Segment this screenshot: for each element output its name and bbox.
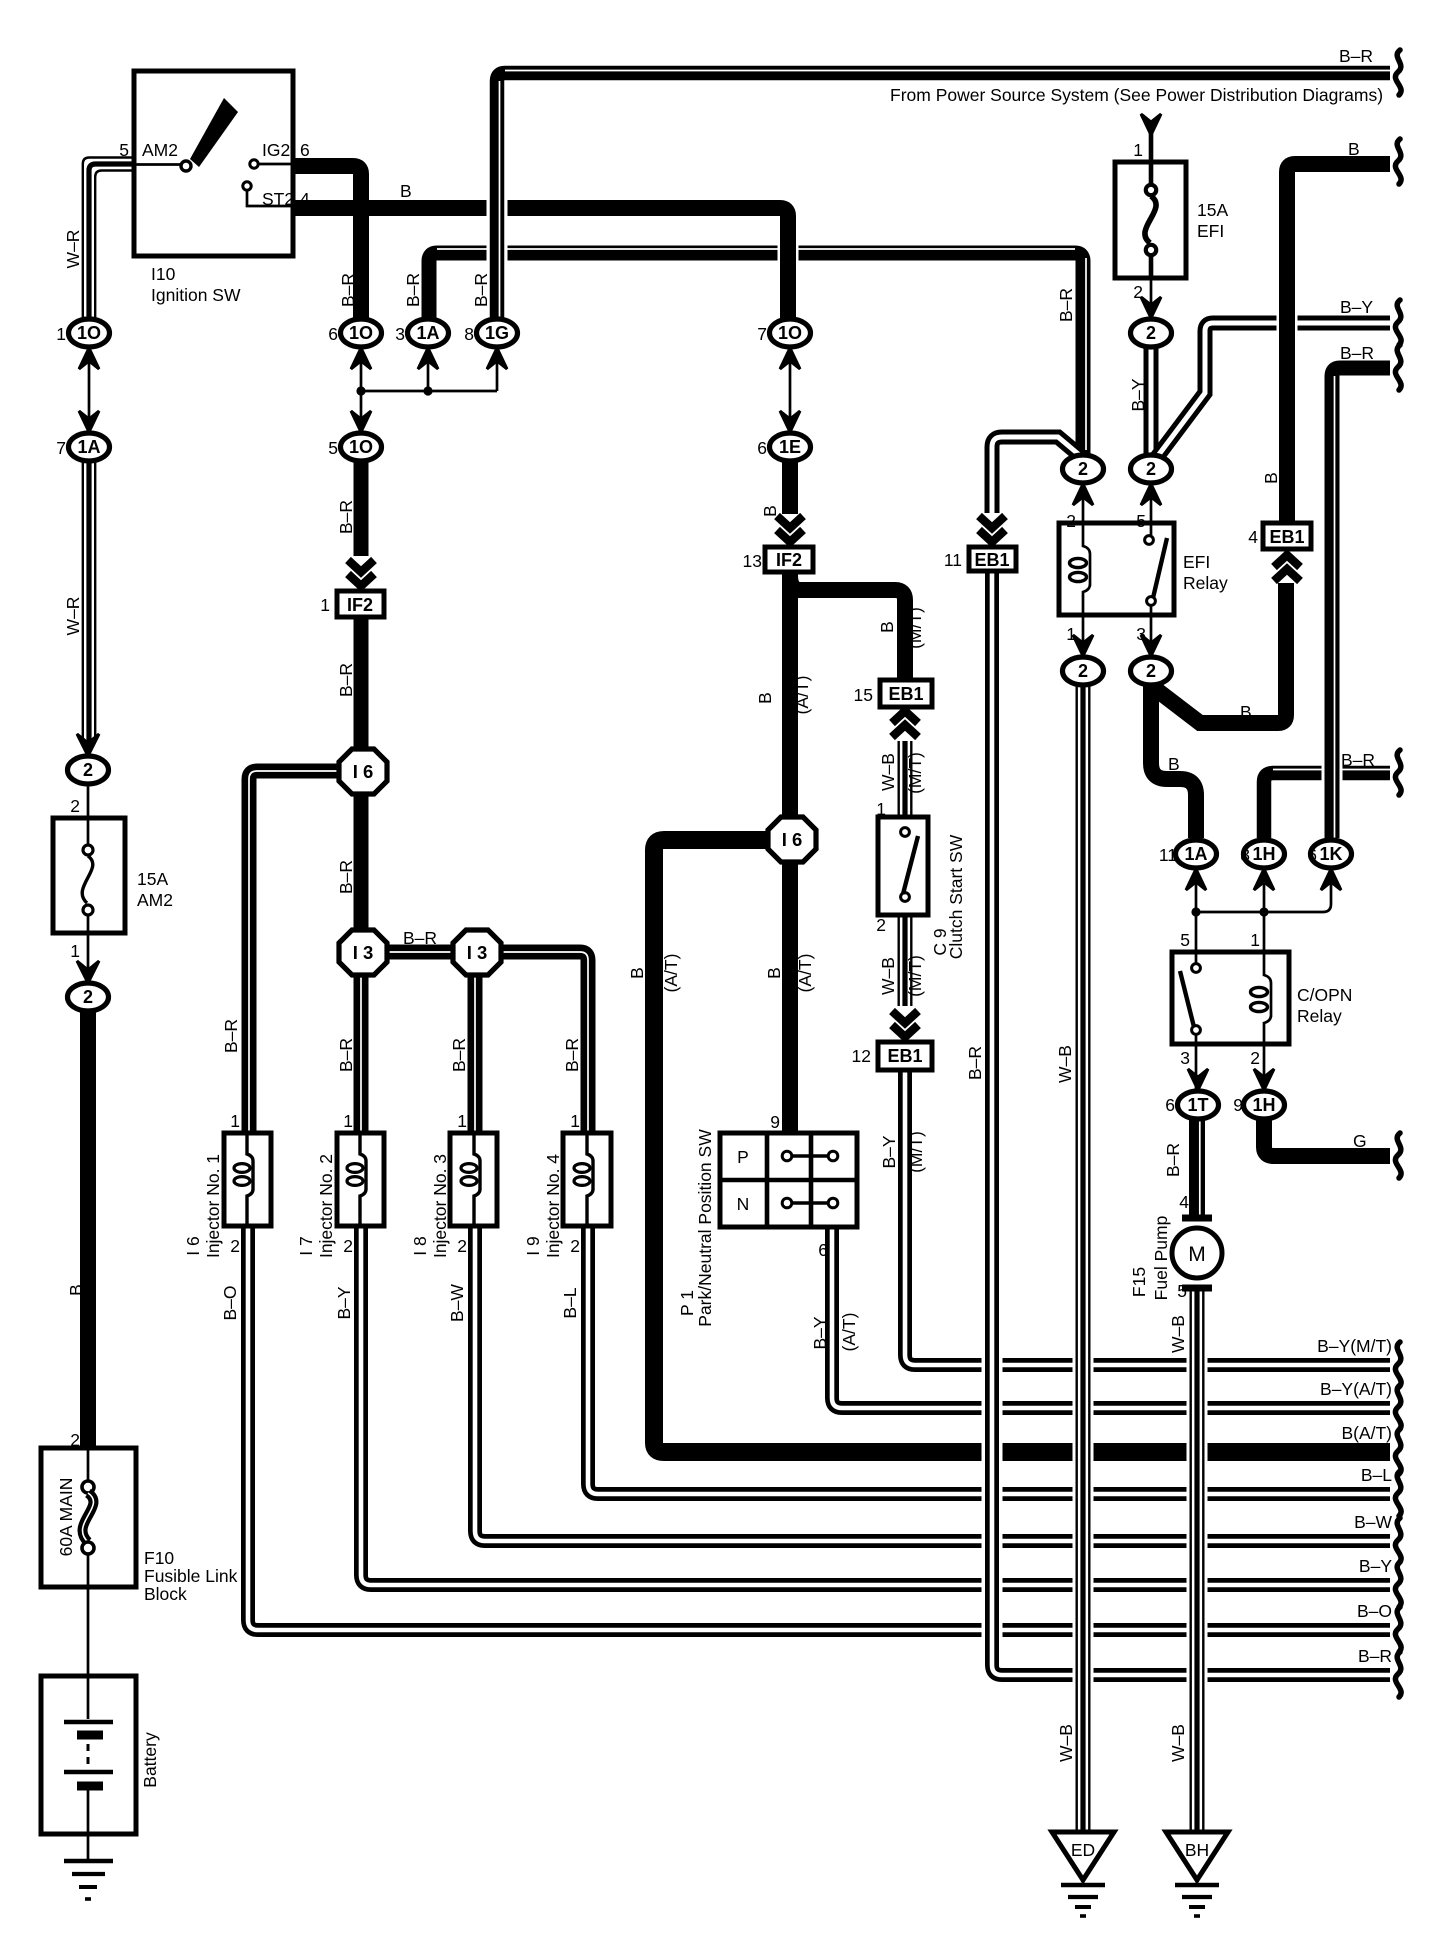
wire B-R double from EB1 11 down and right to edge bus — [992, 570, 1390, 1675]
svg-text:2: 2 — [1133, 282, 1143, 302]
connector oval 2 above AM2 fuse — [68, 756, 109, 784]
svg-text:1O: 1O — [77, 323, 101, 343]
wire B-L double from injector No.4 to right edge bus — [588, 1226, 1390, 1494]
svg-text:Injector No. 4: Injector No. 4 — [543, 1154, 563, 1258]
svg-text:Clutch Start SW: Clutch Start SW — [946, 834, 966, 959]
splice octagon I6 right — [768, 817, 816, 862]
connector oval 6-1O — [341, 319, 382, 347]
svg-text:B–R: B–R — [471, 273, 491, 307]
svg-text:B: B — [1261, 472, 1281, 484]
C/OPN relay switch contacts — [1195, 952, 1198, 1044]
svg-text:Battery: Battery — [140, 1732, 160, 1788]
svg-text:BH: BH — [1185, 1840, 1209, 1860]
svg-text:1H: 1H — [1252, 1095, 1275, 1115]
svg-text:B–W: B–W — [1354, 1512, 1392, 1532]
svg-text:B: B — [760, 505, 780, 517]
wire thin link C/OPN relay pin 2 to 9-1H — [1263, 1044, 1266, 1090]
svg-text:Injector No. 3: Injector No. 3 — [430, 1154, 450, 1258]
svg-text:9: 9 — [770, 1112, 780, 1132]
crescent B-Y — [1395, 1562, 1401, 1607]
svg-text:4: 4 — [1248, 527, 1258, 547]
svg-text:1H: 1H — [1252, 844, 1275, 864]
svg-text:I 6: I 6 — [353, 761, 374, 782]
EFI relay box — [1059, 523, 1174, 615]
wire thin link from power source arrow to EFI fuse — [1149, 128, 1154, 163]
svg-text:2: 2 — [457, 1236, 467, 1256]
svg-text:F15: F15 — [1129, 1267, 1149, 1297]
wire B-Y double diagonal from oval 2 up to right edge — [1154, 323, 1390, 461]
svg-text:1E: 1E — [779, 437, 801, 457]
svg-text:1: 1 — [343, 1111, 353, 1131]
svg-text:B: B — [764, 967, 784, 979]
wire thin link EFI relay pin 1 to oval 2 — [1082, 615, 1085, 657]
wire B-Y(M/T) double from EB1 12 to right edge bus — [905, 1070, 1390, 1365]
EFI fuse box 15A — [1115, 162, 1186, 278]
arrow into oval 2 below EFI fuse — [1141, 297, 1161, 318]
svg-text:2: 2 — [1078, 459, 1088, 479]
svg-text:3: 3 — [395, 324, 405, 344]
wire B-R white core of top bus — [505, 70, 1390, 72]
svg-text:6: 6 — [300, 140, 310, 160]
BH ground bars — [1196, 1880, 1199, 1884]
wire B-R white core line of y=253 bus — [437, 248, 1075, 250]
fuel pump F15 cap top — [1182, 1215, 1212, 1222]
svg-text:B–Y: B–Y — [334, 1286, 354, 1319]
svg-text:B–R: B–R — [403, 273, 423, 307]
ignition switch AM2 pivot contact — [181, 161, 191, 171]
svg-text:I 6: I 6 — [183, 1236, 203, 1255]
svg-text:1: 1 — [320, 595, 330, 615]
svg-text:2: 2 — [70, 1430, 80, 1450]
wire thin link 6-1O to junction bus — [360, 347, 363, 433]
svg-text:B–Y: B–Y — [1359, 1556, 1392, 1576]
svg-text:W–B: W–B — [1055, 1045, 1075, 1083]
svg-text:2: 2 — [1146, 459, 1156, 479]
svg-text:3: 3 — [1180, 1048, 1190, 1068]
wire W-R triple from 7-1A down to oval 2 — [82, 461, 84, 742]
crescent B right — [1395, 139, 1401, 184]
ignition switch lever — [190, 98, 238, 167]
crescent B-Y right — [1395, 300, 1401, 345]
svg-text:8: 8 — [1240, 845, 1250, 865]
wire thin junction bus under connector row — [361, 390, 497, 393]
svg-text:IF2: IF2 — [347, 595, 373, 615]
svg-text:B: B — [755, 692, 775, 704]
fuel pump motor circle — [1172, 1228, 1222, 1278]
wire B-W double from injector No.3 to right edge bus — [475, 1226, 1390, 1541]
wire B-Y(A/T) double from park/neutral SW pin 6 to right edge bus — [832, 1227, 1390, 1408]
connector oval 2 below AM2 fuse — [68, 983, 109, 1011]
clutch start SW box C9 — [878, 817, 928, 915]
connector oval 8-1G — [477, 319, 518, 347]
wire thin link battery to ground — [87, 1834, 90, 1860]
ignition switch IG2 internal wire — [258, 163, 293, 166]
junction dot at C/OPN pin 1 — [1259, 907, 1268, 916]
svg-text:5: 5 — [1177, 1281, 1187, 1301]
svg-text:EFI: EFI — [1183, 552, 1210, 572]
wire thin link 3-1A to junction bus — [427, 347, 430, 391]
wire B-Y double from EFI fuse oval 2 down to oval 2 — [1144, 347, 1159, 455]
svg-text:I 6: I 6 — [782, 829, 803, 850]
svg-text:6: 6 — [818, 1240, 828, 1260]
svg-text:1O: 1O — [349, 437, 373, 457]
svg-text:1O: 1O — [778, 323, 802, 343]
clutch start SW lever — [903, 836, 918, 894]
svg-text:4: 4 — [1179, 1192, 1189, 1212]
ignition switch IG2 contact — [250, 160, 258, 168]
EFI relay coil — [1083, 523, 1090, 615]
svg-text:5: 5 — [119, 140, 129, 160]
svg-text:I 9: I 9 — [523, 1236, 543, 1255]
battery internal lead bottom — [87, 1790, 90, 1834]
svg-text:G: G — [1353, 1131, 1367, 1151]
svg-text:2: 2 — [570, 1236, 580, 1256]
svg-text:I10: I10 — [151, 264, 176, 284]
svg-text:B–R: B–R — [221, 1019, 241, 1053]
crescent B-R to 1H right — [1395, 750, 1401, 795]
svg-text:2: 2 — [876, 915, 886, 935]
connector box IF2 pin 1 — [337, 591, 384, 617]
svg-text:12: 12 — [852, 1046, 871, 1066]
double arrow into IF2 connector 1 — [348, 560, 374, 586]
svg-text:From Power Source System (See: From Power Source System (See Power Dist… — [890, 85, 1383, 105]
svg-text:11: 11 — [944, 550, 962, 570]
svg-text:P 1: P 1 — [677, 1290, 697, 1316]
EFI fuse element S-curve — [1145, 196, 1156, 243]
arrow into oval 2 above EFI relay right — [1141, 484, 1161, 505]
connector oval 8-1H — [1244, 840, 1285, 868]
wire B-Y double from injector No.2 to right edge bus — [361, 1226, 1390, 1585]
svg-text:I 3: I 3 — [353, 942, 374, 963]
svg-text:Ignition SW: Ignition SW — [151, 285, 241, 305]
connector oval 2 right above EFI relay — [1131, 455, 1172, 483]
svg-text:P: P — [737, 1147, 749, 1167]
svg-text:AM2: AM2 — [142, 140, 178, 160]
connector oval 6-1E — [770, 433, 811, 461]
battery plate long 1 — [64, 1720, 113, 1724]
battery internal lead — [87, 1676, 90, 1719]
svg-text:15A: 15A — [1197, 200, 1228, 220]
wire B thick from oval 2 to fusible link block — [80, 1010, 96, 1448]
wire B-R white core of fuel pump feed — [1199, 1119, 1201, 1216]
arrow into 11-1A — [1186, 869, 1206, 890]
wire B-R double from splice I3 to injector No.3 — [468, 974, 483, 1133]
wire thin link EFI relay pin 3 to oval 2 — [1150, 615, 1153, 657]
svg-text:B: B — [400, 181, 412, 201]
svg-text:B–R: B–R — [1163, 1143, 1183, 1177]
arrow into 7-1O — [780, 348, 800, 369]
svg-text:C/OPN: C/OPN — [1297, 985, 1352, 1005]
arrow into 7-1A — [79, 411, 99, 432]
wire thin link oval 2 to EFI relay pin 5 — [1150, 483, 1153, 523]
injector No.2 coil — [360, 1133, 366, 1226]
svg-text:B: B — [66, 1284, 86, 1296]
crescent B-R bottom — [1395, 1652, 1401, 1697]
svg-text:W–B: W–B — [1056, 1724, 1076, 1762]
svg-text:1: 1 — [70, 941, 80, 961]
svg-text:EFI: EFI — [1197, 221, 1224, 241]
wire B-R double between splice I3 and splice I3 — [383, 945, 455, 960]
svg-text:1O: 1O — [349, 323, 373, 343]
wire B thick right-top from corner down to EB1 4 — [1287, 164, 1390, 521]
svg-text:B–R: B–R — [336, 860, 356, 894]
wire G thick from 9-1H elbow to right edge — [1264, 1119, 1390, 1156]
svg-text:1: 1 — [457, 1111, 467, 1131]
svg-text:B: B — [877, 621, 897, 633]
AM2 fuse box 15A — [53, 818, 125, 933]
svg-text:(M/T): (M/T) — [905, 607, 925, 649]
svg-text:1K: 1K — [1319, 844, 1342, 864]
svg-text:B(A/T): B(A/T) — [1341, 1423, 1392, 1443]
wire B-R double from right edge to 8-1H — [1264, 773, 1390, 838]
svg-text:EB1: EB1 — [974, 550, 1009, 570]
svg-text:IG2: IG2 — [262, 140, 290, 160]
svg-text:(A/T): (A/T) — [792, 676, 812, 715]
svg-text:(A/T): (A/T) — [661, 954, 681, 993]
ignition switch I10 box — [134, 71, 293, 256]
wire thin link 8-1G to junction bus — [496, 347, 499, 391]
EFI fuse element bottom contact — [1146, 245, 1156, 255]
svg-text:B–R: B–R — [338, 273, 358, 307]
arrow into 8-1G — [487, 348, 507, 369]
svg-text:B–R: B–R — [1340, 343, 1374, 363]
svg-text:1: 1 — [1066, 624, 1076, 644]
EFI fuse element top contact — [1146, 185, 1156, 195]
svg-text:(M/T): (M/T) — [906, 1131, 926, 1173]
wire thin link between 1-1O and 7-1A — [88, 347, 91, 433]
wire B-R white core of 1K vertical — [1334, 376, 1336, 838]
svg-text:I 8: I 8 — [410, 1236, 430, 1255]
svg-text:EB1: EB1 — [888, 684, 923, 704]
svg-text:2: 2 — [1146, 661, 1156, 681]
svg-text:B–R: B–R — [1341, 750, 1375, 770]
svg-text:ED: ED — [1071, 1840, 1095, 1860]
svg-text:B–R: B–R — [965, 1046, 985, 1080]
fusible link block F10 box — [41, 1448, 136, 1587]
AM2 fuse element top contact — [83, 845, 93, 855]
park/neutral SW N row contacts — [782, 1198, 792, 1208]
battery plate short thick 2 — [77, 1782, 103, 1791]
svg-text:13: 13 — [743, 551, 762, 571]
svg-text:W–B: W–B — [1168, 1724, 1188, 1762]
double arrow into EB1 15 — [892, 711, 918, 737]
EFI fuse internal leads — [1149, 163, 1154, 278]
BH ground triangle — [1166, 1832, 1228, 1880]
connector box IF2 pin 13 — [765, 547, 813, 572]
battery plate short thick 1 — [77, 1731, 103, 1740]
battery ground symbol — [64, 1859, 113, 1864]
park/neutral position SW box P1 — [720, 1133, 857, 1227]
wire B-R from ignition IG2 pin 6 to 6-1O — [293, 166, 361, 319]
svg-text:1: 1 — [230, 1111, 240, 1131]
wire B thick from 6-1E to IF2 connector 13 — [782, 461, 798, 514]
svg-text:2: 2 — [83, 760, 93, 780]
wire W-B(M/T) triple from clutch start SW pin 2 to EB1 12 — [898, 915, 900, 1006]
svg-text:3: 3 — [1136, 624, 1146, 644]
svg-text:8: 8 — [464, 324, 474, 344]
svg-text:B–R: B–R — [1358, 1646, 1392, 1666]
svg-text:1A: 1A — [1184, 844, 1207, 864]
injector No.3 box I8 — [450, 1133, 497, 1226]
wire B thick from splice I6 to park/neutral position SW pin 9 — [782, 858, 798, 1133]
junction dot at 3-1A drop — [423, 386, 432, 395]
battery dashed link — [87, 1744, 90, 1766]
wire B(M/T) thick elbow from IF2 13 to EB1 15 — [790, 573, 905, 680]
svg-text:B–R: B–R — [336, 1038, 356, 1072]
ED ground bars — [1082, 1880, 1085, 1884]
wire W-B triple from fuel pump down to BH ground — [1187, 1291, 1208, 1832]
svg-text:2: 2 — [83, 987, 93, 1007]
svg-text:4: 4 — [300, 189, 310, 209]
fusible link element fat S — [83, 1493, 94, 1542]
crescent B-R top right — [1395, 50, 1401, 95]
wire thin link oval 2 to EFI relay pin 2 — [1082, 483, 1085, 523]
svg-text:B: B — [1240, 702, 1252, 722]
connector oval 9-1H — [1244, 1091, 1285, 1119]
injector No.1 coil — [247, 1133, 253, 1226]
wire B-R thick from splice I6 to splice I3 — [354, 791, 369, 933]
double arrow into EB1 12 — [892, 1011, 918, 1037]
park/neutral SW P row contacts — [782, 1151, 792, 1161]
svg-text:W–B: W–B — [1168, 1315, 1188, 1353]
svg-text:B: B — [627, 967, 647, 979]
wire B-R top bus from power source with drop to 8-1G — [497, 73, 1390, 319]
svg-text:B: B — [1348, 139, 1360, 159]
connector box EB1 pin 12 — [878, 1042, 932, 1070]
arrow into 5-1O — [351, 411, 371, 432]
wire B-R horizontal bus from 3-1A corner to oval-2 drop (y=253) — [429, 253, 1083, 455]
svg-text:B–R: B–R — [562, 1038, 582, 1072]
wire B-R double from splice I3 to injector No.2 — [354, 974, 369, 1133]
ED ground triangle — [1052, 1832, 1114, 1880]
svg-text:B–Y(A/T): B–Y(A/T) — [1320, 1379, 1392, 1399]
crescent B-Y(M/T) — [1395, 1342, 1401, 1387]
arrow into 1-1O — [79, 348, 99, 369]
wire B thick from IF2 connector 13 to splice I6 — [782, 571, 798, 820]
svg-text:2: 2 — [1078, 661, 1088, 681]
connector box EB1 pin 11 — [969, 547, 1016, 571]
svg-text:B–R: B–R — [1339, 46, 1373, 66]
EFI relay switch contacts — [1150, 523, 1153, 615]
svg-text:B–R: B–R — [1056, 288, 1076, 322]
svg-text:1: 1 — [56, 324, 66, 344]
splice octagon I3 left — [339, 930, 387, 975]
wire B-R white core of oval-2 drop vertical — [1085, 258, 1087, 450]
svg-text:Injector No. 1: Injector No. 1 — [203, 1154, 223, 1258]
svg-text:7: 7 — [56, 438, 66, 458]
svg-text:Fuel Pump: Fuel Pump — [1151, 1216, 1171, 1301]
junction dot at 6-1O drop — [356, 386, 365, 395]
wire thin link 11-1A to C/OPN relay pin 5 — [1195, 869, 1198, 952]
AM2 fuse element S-curve — [82, 856, 93, 903]
wire B-R thick from 5-1O to IF2 connector 1 — [354, 461, 369, 556]
svg-text:Relay: Relay — [1297, 1006, 1342, 1026]
svg-text:1G: 1G — [485, 323, 509, 343]
arrow into oval 2 below AM2 fuse — [77, 961, 99, 983]
wire thin link oval 2 to fuse AM2 — [87, 785, 90, 818]
ignition switch ST2 contact — [243, 182, 251, 190]
connector oval 2 below EFI fuse — [1131, 319, 1172, 347]
svg-text:B–R: B–R — [403, 928, 437, 948]
svg-text:9: 9 — [1233, 1095, 1243, 1115]
splice octagon I3 right — [453, 930, 501, 975]
svg-text:AM2: AM2 — [137, 890, 173, 910]
crescent B-R right mid — [1395, 345, 1401, 390]
EFI relay switch lever — [1153, 538, 1167, 598]
svg-text:B–R: B–R — [336, 500, 356, 534]
svg-text:Injector No. 2: Injector No. 2 — [316, 1154, 336, 1258]
svg-text:B–L: B–L — [560, 1287, 580, 1318]
svg-text:B–Y: B–Y — [810, 1316, 830, 1349]
wire B-R from 6-1T to fuel pump — [1189, 1119, 1205, 1216]
arrow into oval 2 above EFI relay left — [1073, 484, 1093, 505]
battery plate long 2 — [64, 1770, 113, 1774]
svg-text:1A: 1A — [416, 323, 439, 343]
svg-text:B–Y: B–Y — [1340, 297, 1373, 317]
connector oval 1-1O — [69, 319, 110, 347]
svg-text:IF2: IF2 — [776, 550, 802, 570]
AM2 fuse element bottom contact — [83, 905, 93, 915]
park/neutral SW grid lines — [720, 1133, 857, 1227]
svg-text:6: 6 — [1165, 1095, 1175, 1115]
svg-text:2: 2 — [70, 796, 80, 816]
svg-text:11: 11 — [1159, 845, 1177, 865]
connector box EB1 pin 15 — [880, 680, 932, 707]
connector oval 2 left below EFI relay — [1063, 657, 1104, 685]
wire thin link EFI fuse to oval 2 — [1150, 278, 1153, 318]
svg-text:6: 6 — [328, 324, 338, 344]
svg-text:B–O: B–O — [1357, 1601, 1392, 1621]
fusible link bottom contact — [82, 1542, 94, 1554]
svg-text:M: M — [1188, 1243, 1206, 1266]
svg-text:7: 7 — [757, 324, 767, 344]
svg-text:1T: 1T — [1187, 1095, 1208, 1115]
svg-text:5: 5 — [328, 438, 338, 458]
svg-text:15: 15 — [854, 685, 873, 705]
arrow into 6-1K — [1321, 869, 1341, 890]
AM2 fuse internal leads — [87, 818, 90, 933]
wire B-R white core of 8-1G drop — [499, 81, 501, 319]
svg-text:B–R: B–R — [449, 1038, 469, 1072]
svg-text:5: 5 — [1136, 511, 1146, 531]
svg-text:(M/T): (M/T) — [905, 752, 925, 794]
svg-text:15A: 15A — [137, 869, 168, 889]
svg-text:6: 6 — [1307, 845, 1317, 865]
svg-text:W–B: W–B — [878, 957, 898, 995]
svg-text:2: 2 — [1250, 1048, 1260, 1068]
C/OPN relay coil — [1264, 952, 1271, 1044]
wire B thick from ignition ST2 pin 4 to 7-1O drop corner — [293, 208, 788, 319]
svg-text:I 7: I 7 — [296, 1236, 316, 1255]
wire thin link C/OPN relay pin 3 to 6-1T — [1195, 1044, 1198, 1090]
svg-text:60A MAIN: 60A MAIN — [56, 1478, 76, 1557]
wire thin link 8-1H to C/OPN relay pin 1 — [1263, 869, 1266, 952]
svg-text:W–B: W–B — [878, 753, 898, 791]
injector No.1 box I6 — [224, 1133, 271, 1226]
svg-text:1: 1 — [1133, 140, 1143, 160]
wire thin link fuse AM2 to oval 2 — [87, 933, 90, 987]
crescent B-O — [1395, 1607, 1401, 1652]
svg-text:2: 2 — [230, 1236, 240, 1256]
double arrow into IF2 connector 13 — [777, 516, 803, 542]
clutch start SW contacts — [901, 828, 910, 837]
crescent B-L — [1395, 1471, 1401, 1516]
connector oval 6-1K — [1311, 840, 1352, 868]
svg-text:2: 2 — [1146, 323, 1156, 343]
arrow into 8-1H — [1254, 869, 1274, 890]
svg-text:B–Y: B–Y — [879, 1135, 899, 1168]
svg-text:B: B — [1168, 754, 1180, 774]
